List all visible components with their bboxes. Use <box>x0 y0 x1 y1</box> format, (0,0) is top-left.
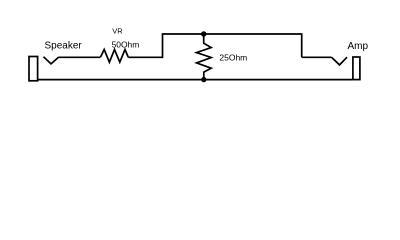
jack J1 tip contact (V notch) <box>44 57 59 64</box>
svg-text:VR: VR <box>112 27 123 36</box>
svg-text:Amp: Amp <box>348 41 369 52</box>
wire: top rail <box>162 33 302 35</box>
node: bottom junction dot <box>201 77 206 82</box>
svg-text:Speaker: Speaker <box>45 41 83 52</box>
jack J2 (Amp) body <box>353 57 360 80</box>
node: top junction dot <box>201 31 206 36</box>
jack J1 (Speaker) body <box>29 57 38 81</box>
jack J2 tip contact (V notch) <box>332 57 348 65</box>
wire: top rail corner down <box>301 33 303 57</box>
svg-text:25Ohm: 25Ohm <box>219 53 247 63</box>
wire: bottom rail <box>37 79 352 81</box>
wire: corner to J2 tip <box>302 56 332 58</box>
wire: VR to riser <box>128 56 162 58</box>
wire: J1 tip to resistor VR <box>59 56 101 58</box>
svg-text:50Ohm: 50Ohm <box>112 39 140 49</box>
resistor VR 50Ohm (horizontal zigzag) <box>100 50 128 63</box>
resistor R2 25Ohm (vertical zigzag) <box>197 34 212 80</box>
wire: riser up <box>162 34 164 58</box>
